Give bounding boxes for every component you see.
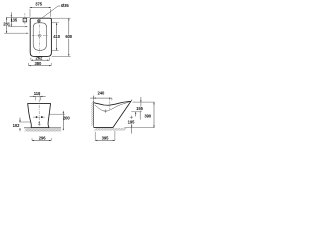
drain cross (104, 110, 107, 112)
svg-text:155: 155 (136, 106, 143, 111)
square fixing hole (23, 18, 27, 22)
svg-text:600: 600 (65, 34, 72, 39)
leader line to O35 (40, 6, 60, 19)
extension mid right (131, 111, 141, 113)
floor hatch front view (24, 128, 61, 132)
dim 200 right (49, 113, 65, 115)
svg-text:296: 296 (39, 136, 46, 141)
dim 281 (6, 17, 8, 33)
dim 395 bottom (94, 138, 96, 140)
dim 380 bottom (28, 63, 30, 66)
svg-text:195: 195 (128, 120, 135, 125)
svg-text:375: 375 (35, 2, 42, 7)
svg-text:410: 410 (53, 34, 60, 39)
inlet hole O35 (38, 20, 40, 22)
dim 135 (10, 12, 12, 26)
svg-text:262: 262 (36, 56, 43, 61)
front outline (28, 104, 51, 128)
dim 155 (140, 97, 142, 102)
svg-text:102: 102 (13, 123, 20, 128)
svg-text:395: 395 (102, 135, 109, 140)
svg-text:110: 110 (34, 91, 41, 96)
left extension line top (6, 16, 30, 18)
drain arrow (38, 121, 40, 124)
dim 600 right (52, 17, 71, 19)
svg-text:390: 390 (144, 113, 151, 118)
hatch under fixture (94, 128, 126, 131)
arrow under mid extension (135, 112, 137, 117)
center cross (32, 35, 48, 37)
inner rim oval (33, 23, 46, 51)
top extension right (133, 101, 155, 103)
inner bowl curve (95, 102, 129, 111)
dim 262 bottom (30, 58, 32, 61)
dim line segment below mid extension (139, 112, 141, 120)
vertical centerline (38, 25, 40, 54)
wall extension tick above (93, 96, 95, 102)
tip overshoot (131, 100, 132, 102)
svg-text:380: 380 (35, 61, 42, 66)
svg-text:135: 135 (10, 18, 17, 23)
side profile outline (94, 101, 131, 127)
wall line (93, 102, 95, 128)
dim 410 inner right (52, 22, 59, 24)
floor extension right (124, 127, 154, 129)
svg-text:200: 200 (63, 115, 70, 120)
fixing hole dots (33, 116, 46, 118)
dim 102 left (19, 121, 30, 123)
dim 390 (153, 102, 155, 127)
floor line front view (24, 127, 61, 129)
wall hatch (91, 101, 94, 126)
svg-text:Ø35: Ø35 (61, 3, 69, 8)
drain centerline (109, 98, 111, 109)
svg-text:240: 240 (98, 91, 105, 96)
front centerline (38, 93, 40, 127)
svg-text:281: 281 (3, 22, 10, 27)
extension line mid (8, 26, 27, 28)
hole centerline (24, 13, 26, 24)
bolt cross on diagonal (130, 116, 133, 118)
extension line lower (4, 32, 28, 34)
body outline (30, 18, 51, 56)
